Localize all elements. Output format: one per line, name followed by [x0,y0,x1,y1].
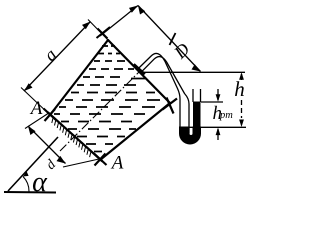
wall upper-left T-L [50,40,108,115]
extension line at L [21,88,50,116]
svg-text:h: h [234,77,245,101]
section tick X at B [94,154,107,166]
datum horizontal line at mouth level [140,71,245,73]
arrowhead into V on left branch [129,6,138,13]
svg-text:A: A [29,98,43,119]
tick X at a upper end [97,27,111,39]
hatching on cover (lower-left side) [52,118,91,157]
cover line L-B (section A-A) [48,113,102,162]
extension line at T [88,20,108,41]
wall lower-right B-R [100,103,170,160]
extension L to d [25,114,48,129]
tick X at R (manometer connection) [163,98,178,114]
U-bend solid black [180,127,201,144]
svg-text:A: A [110,153,124,174]
extension B to d [63,159,99,167]
dimension d [25,114,99,168]
h_pm down arrow [216,89,221,102]
water dashes [54,46,160,152]
mercury in right limb [193,102,201,135]
manometer feed tube collar at wall [134,65,145,75]
arrowhead into V on D line [138,6,145,15]
mercury in left limb [180,127,190,135]
h_pm upper line [201,101,223,103]
ground line [4,191,56,194]
arrowhead at bottom of D line [192,64,201,71]
h dimension line [239,72,244,127]
alpha arc [23,177,29,192]
right limb walls above mercury [193,89,201,102]
h_pm up arrow [216,128,221,140]
section tick X at L [44,109,57,122]
feed tube and left limb inner wall [140,57,189,134]
svg-text:pm: pm [219,110,233,121]
svg-text:a: a [40,45,61,65]
dimension D line [138,6,201,72]
arrow a upper [82,22,91,30]
h_pm lower line [182,126,246,128]
feed tube and left limb outer wall [137,53,180,133]
wall upper-right T-R [108,40,170,103]
thin line to V apex (extension for D) [100,6,201,72]
incline line to ground [8,137,58,191]
dimension a line [21,20,108,116]
svg-text:α: α [32,167,48,197]
axis dash-dot of cover [60,70,141,151]
arrow a lower [24,83,33,91]
tick across D line [170,33,176,45]
